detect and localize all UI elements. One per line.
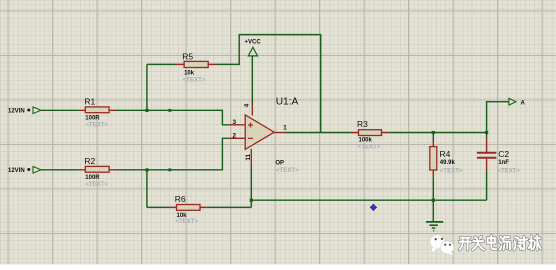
svg-text:1: 1 xyxy=(283,124,287,131)
wire: 12VIN row1 terminal to R1 xyxy=(41,109,79,111)
wire: output node up to A terminal xyxy=(487,102,509,133)
wire: R4 bottom to ground xyxy=(432,178,434,222)
svg-text:OP: OP xyxy=(275,161,284,167)
pin 3 xyxy=(230,124,245,126)
wire: R5 left xyxy=(147,63,176,65)
marker: blue origin diamond xyxy=(370,204,377,211)
wire: C2 top stub xyxy=(486,133,488,139)
pin 11 xyxy=(250,149,252,165)
wire: output row pin1 to R3 xyxy=(285,132,352,134)
svg-text:12VIN: 12VIN xyxy=(8,168,25,174)
junction R2/R6 node xyxy=(145,168,148,171)
wire: R5 right up and over to output vertical xyxy=(216,35,320,133)
svg-text:<TEXT>: <TEXT> xyxy=(85,181,108,188)
junction R4/ground on bottom rail xyxy=(432,199,435,202)
junction pin11/bottom rail xyxy=(250,199,253,202)
svg-text:R6: R6 xyxy=(175,194,186,204)
wire: C2 bottom to rail xyxy=(486,170,488,200)
wire: R3 right to C2 node xyxy=(388,132,487,134)
svg-text:3: 3 xyxy=(233,119,237,126)
wire: R2 right to pin2 jog xyxy=(115,138,230,170)
svg-text:<TEXT>: <TEXT> xyxy=(440,167,463,174)
wire: node R1/R5 vertical branch xyxy=(146,64,148,110)
svg-text:<TEXT>: <TEXT> xyxy=(175,218,198,225)
svg-text:12VIN: 12VIN xyxy=(8,108,25,114)
svg-text:U1:A: U1:A xyxy=(276,96,299,107)
junction C2/A output node xyxy=(485,131,488,134)
wire: bottom rail xyxy=(251,199,486,201)
wire: VCC stem xyxy=(251,56,253,103)
pin 1 xyxy=(274,132,284,134)
junction R1/R5 node xyxy=(145,109,148,112)
svg-text:R2: R2 xyxy=(84,156,95,166)
svg-text:R1: R1 xyxy=(84,96,95,106)
junction R4 top node xyxy=(432,131,435,134)
watermark text: kai guan dian yuan jie xi xyxy=(459,236,540,250)
svg-text:+VCC: +VCC xyxy=(245,40,262,46)
svg-text:<TEXT>: <TEXT> xyxy=(183,76,206,83)
svg-text:49.9k: 49.9k xyxy=(440,160,456,166)
pin 4 xyxy=(251,103,253,116)
wire: R6 right to pin11 vertical xyxy=(207,206,251,208)
wire: node R2/R6 vertical branch xyxy=(146,170,148,208)
wire: pin11 down xyxy=(250,165,252,208)
wire: R4 top lead wire xyxy=(432,133,434,143)
svg-text:11: 11 xyxy=(245,153,252,160)
wire: R1 right to pin3 jog xyxy=(115,110,230,125)
svg-text:A: A xyxy=(521,101,526,107)
svg-text:R3: R3 xyxy=(357,119,368,129)
svg-text:C2: C2 xyxy=(498,149,509,159)
wire: R6 left xyxy=(147,206,170,208)
svg-text:R5: R5 xyxy=(182,51,193,61)
junction dot row2 xyxy=(168,168,171,171)
svg-text:<TEXT>: <TEXT> xyxy=(85,122,108,129)
junction dot row1 xyxy=(168,109,171,112)
pin 2 xyxy=(230,137,245,139)
svg-text:4: 4 xyxy=(244,103,251,107)
svg-text:2: 2 xyxy=(233,133,237,140)
svg-text:<TEXT>: <TEXT> xyxy=(276,167,299,174)
svg-text:<TEXT>: <TEXT> xyxy=(497,167,520,174)
svg-text:R4: R4 xyxy=(440,149,451,159)
wire: 12VIN row2 terminal to R2 xyxy=(41,169,79,171)
svg-text:<TEXT>: <TEXT> xyxy=(358,144,381,151)
svg-text:1nF: 1nF xyxy=(498,160,509,166)
